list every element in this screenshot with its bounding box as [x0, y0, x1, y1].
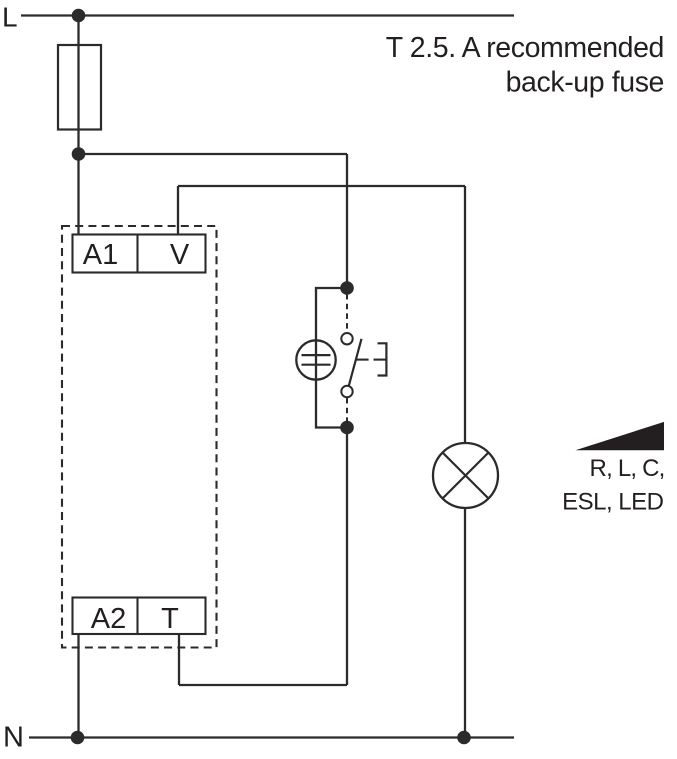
svg-text:R, L, C,: R, L, C, — [590, 455, 665, 482]
wire junction to switch branch — [79, 153, 348, 155]
wire glow-lamp branch top — [316, 288, 347, 341]
wire N line — [29, 736, 514, 738]
svg-text:V: V — [170, 239, 190, 271]
svg-text:T 2.5. A recommended: T 2.5. A recommended — [386, 32, 664, 64]
lamp E1 — [433, 443, 498, 508]
svg-text:T: T — [161, 603, 179, 635]
terminal label A2 — [91, 603, 126, 635]
wire A2 to N — [77, 634, 79, 738]
dashed link junction to contact — [346, 294, 348, 333]
glow lamp electrode top — [302, 354, 331, 356]
wire lamp branch down — [464, 186, 466, 444]
dimmer ramp symbol — [575, 422, 664, 450]
switch contact upper — [341, 333, 352, 344]
terminal label T — [161, 603, 179, 635]
switch contact lower — [341, 386, 352, 397]
svg-text:A2: A2 — [91, 603, 126, 635]
pushbutton actuator link — [356, 359, 369, 361]
load label R, L, C, — [590, 455, 665, 482]
junction L-fuse — [72, 9, 86, 23]
junction switch bottom — [340, 421, 354, 435]
wire V terminal up — [177, 186, 179, 235]
switch blade S1 — [349, 339, 362, 386]
junction N-A2 — [71, 731, 85, 745]
pushbutton actuator bracket — [378, 343, 387, 375]
load label ESL, LED — [562, 489, 664, 516]
svg-text:N: N — [3, 722, 24, 754]
wire V to lamp branch — [178, 185, 465, 187]
wire glow-lamp branch bottom — [316, 380, 347, 428]
node L label — [2, 2, 18, 33]
wire switch branch to T wire — [346, 428, 348, 686]
wire fuse branch vertical — [77, 16, 79, 155]
glow lamp electrode bottom — [302, 364, 331, 366]
terminal block A1/V — [73, 235, 206, 273]
terminal block A2/T — [73, 598, 206, 635]
wire L line — [21, 14, 514, 16]
wire T terminal down — [178, 634, 180, 685]
fuse F1 — [58, 45, 101, 130]
svg-text:back-up fuse: back-up fuse — [506, 67, 664, 99]
node N label — [3, 722, 24, 754]
dashed link contact to junction — [346, 398, 348, 422]
glow lamp (button illumination) — [296, 340, 335, 379]
junction switch top — [340, 281, 354, 295]
terminal label A1 — [83, 239, 118, 271]
svg-text:L: L — [2, 2, 18, 33]
note: recommended fuse text — [386, 32, 664, 99]
terminal label V — [170, 239, 190, 271]
svg-text:A1: A1 — [83, 239, 118, 271]
wire A1 feed — [77, 154, 79, 235]
svg-text:ESL, LED: ESL, LED — [562, 489, 664, 516]
device dashed outline — [62, 226, 217, 648]
wire T horizontal — [179, 684, 347, 686]
junction N-lamp — [457, 731, 471, 745]
wire lamp to N — [464, 508, 466, 738]
junction below fuse — [72, 147, 86, 161]
wire switch branch down — [346, 154, 348, 288]
